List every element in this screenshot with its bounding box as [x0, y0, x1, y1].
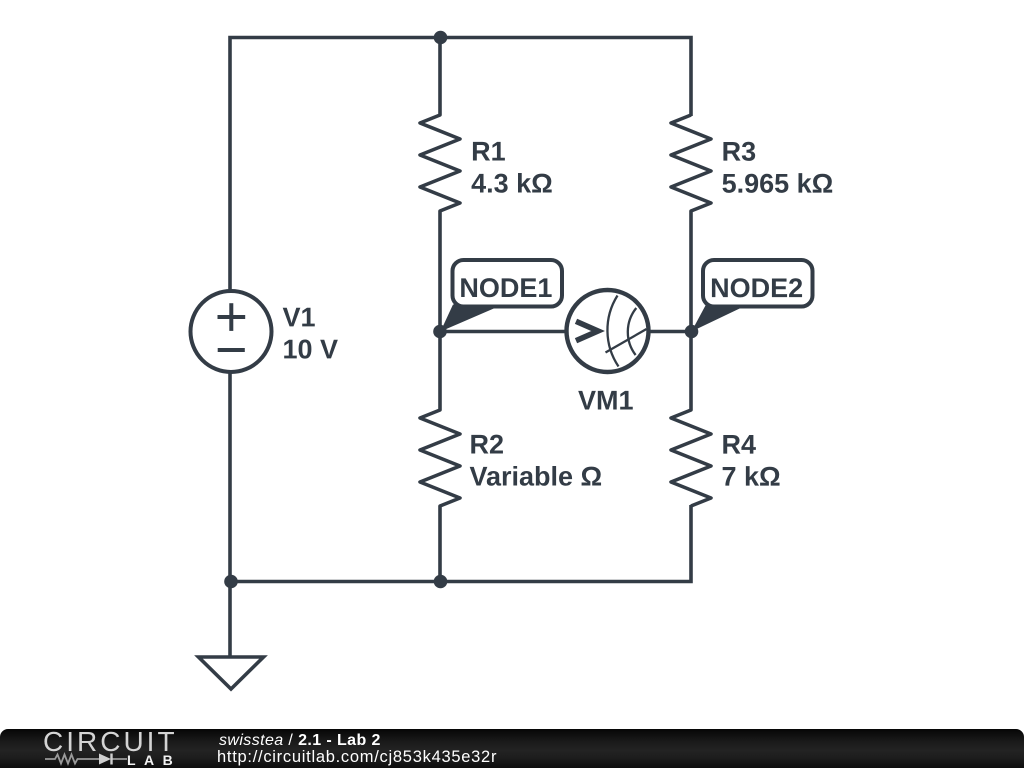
svg-text:VM1: VM1	[578, 386, 634, 416]
svg-text:R2: R2	[469, 429, 504, 459]
svg-text:4.3 kΩ: 4.3 kΩ	[471, 168, 553, 198]
svg-text:NODE1: NODE1	[459, 273, 552, 303]
svg-text:R1: R1	[471, 136, 506, 166]
svg-text:V1: V1	[283, 302, 316, 332]
svg-text:7 kΩ: 7 kΩ	[721, 462, 780, 492]
svg-text:5.965 kΩ: 5.965 kΩ	[722, 169, 834, 199]
svg-text:NODE2: NODE2	[710, 273, 803, 303]
svg-text:R4: R4	[721, 430, 756, 460]
svg-text:Variable Ω: Variable Ω	[469, 461, 602, 491]
svg-text:R3: R3	[722, 137, 757, 167]
svg-text:10 V: 10 V	[283, 334, 339, 364]
